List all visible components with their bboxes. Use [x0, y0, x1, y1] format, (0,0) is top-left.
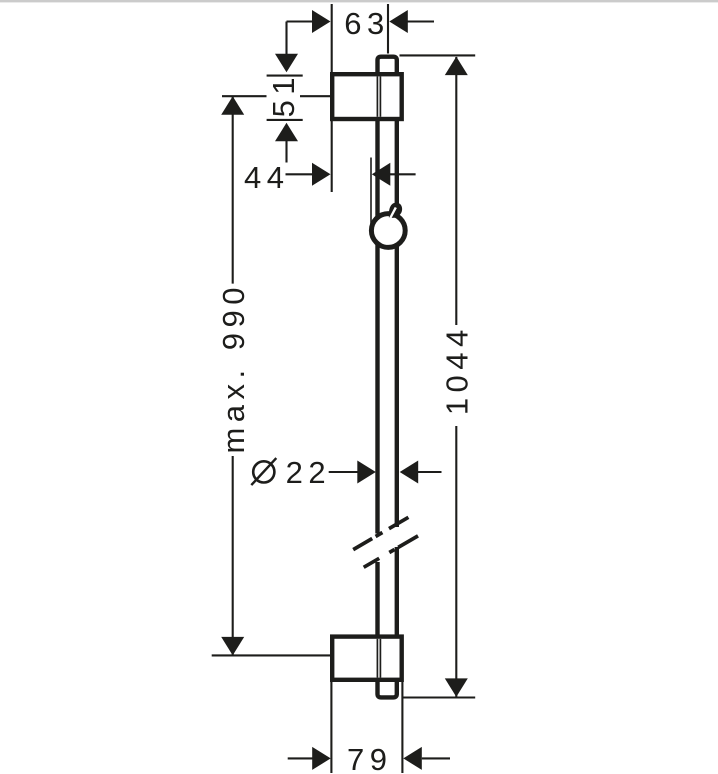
wall bar right edge lower segment	[395, 547, 399, 640]
dim 51 upper stem	[285, 22, 287, 55]
svg-text:44: 44	[244, 160, 289, 195]
dim line 79 left	[288, 757, 313, 759]
arrow 63 right	[389, 10, 408, 33]
top wall bracket	[332, 74, 402, 119]
label Ø22 : diameter symbol slash	[251, 458, 276, 485]
dim line 79 right	[422, 757, 450, 759]
dim line 63 right	[408, 20, 435, 22]
extension line left of 79 (x=331.4)	[330, 682, 332, 773]
arrow max.990 down	[221, 637, 244, 656]
label Ø22 : diameter symbol circle	[253, 461, 274, 482]
extension line right of 63 (bar centre, x=388)	[387, 4, 389, 54]
dim line Ø22 left	[329, 471, 358, 473]
wall bar right edge upper segment	[395, 117, 399, 527]
break symbol slash upper (dashed)	[353, 517, 408, 549]
slider hook	[389, 203, 402, 218]
arrow 79 right-pointing	[312, 747, 331, 770]
extension line bottom of max.990 (y=655.4)	[212, 654, 333, 656]
top page separator line	[0, 0, 718, 2]
dim 51 lower stem	[285, 141, 287, 163]
arrow 44 left-pointing	[372, 163, 391, 186]
extension line top of 1044 (y=55.4)	[400, 54, 476, 56]
wall bar left edge upper segment	[375, 117, 379, 534]
wall bar left edge lower segment	[375, 562, 379, 640]
arrow 51 up	[275, 123, 298, 142]
svg-text:1044: 1044	[440, 324, 475, 415]
arrow 1044 up	[445, 57, 468, 76]
slider hook notch	[390, 208, 396, 220]
dim line 44 left	[286, 173, 313, 175]
svg-text:22: 22	[286, 455, 331, 490]
arrow 44 right-pointing	[312, 163, 331, 186]
arrow 51 down	[275, 54, 298, 73]
extension line left (63/44 shared, x=331.7)	[331, 4, 333, 192]
bar thin edge lines inside bottom bracket	[376, 639, 378, 678]
tick 51 bottom	[267, 119, 303, 121]
bar top cap	[378, 57, 397, 76]
arrow Ø22 right-pointing	[357, 461, 376, 484]
slider ring	[371, 214, 405, 248]
bar bottom cap	[378, 678, 397, 697]
dim line Ø22 right	[418, 471, 442, 473]
dim line 44 right	[390, 173, 416, 175]
bottom wall bracket	[332, 637, 402, 680]
tick 51 top	[267, 75, 303, 77]
bar thin edge lines inside top bracket	[376, 76, 378, 116]
dim line 1044 upper	[455, 57, 457, 325]
arrow 63 left	[312, 10, 331, 33]
extension line bottom of 1044 (y=697.5)	[403, 696, 475, 698]
arrow Ø22 left-pointing	[400, 461, 419, 484]
dim line max.990 upper	[232, 96, 234, 283]
extension line right of 79 (x=402.4)	[401, 682, 403, 773]
extension line right of 44 (thin, x=371)	[370, 158, 372, 225]
arrow 1044 down	[445, 678, 468, 697]
svg-text:max. 990: max. 990	[216, 282, 251, 454]
svg-text:63: 63	[344, 6, 389, 41]
extension line top of max.990 (y=96.2) right part	[300, 95, 335, 97]
arrow 79 left-pointing	[403, 747, 422, 770]
dim line max.990 lower	[232, 456, 234, 655]
dim line 63 left	[287, 20, 313, 22]
dim line 1044 lower	[455, 426, 457, 697]
arrow max.990 up	[221, 96, 244, 115]
svg-text:51: 51	[266, 72, 301, 117]
extension line top of max.990 (y=96.2) left part	[222, 95, 267, 97]
break symbol slash lower (dashed)	[364, 536, 418, 567]
svg-text:79: 79	[347, 742, 392, 774]
